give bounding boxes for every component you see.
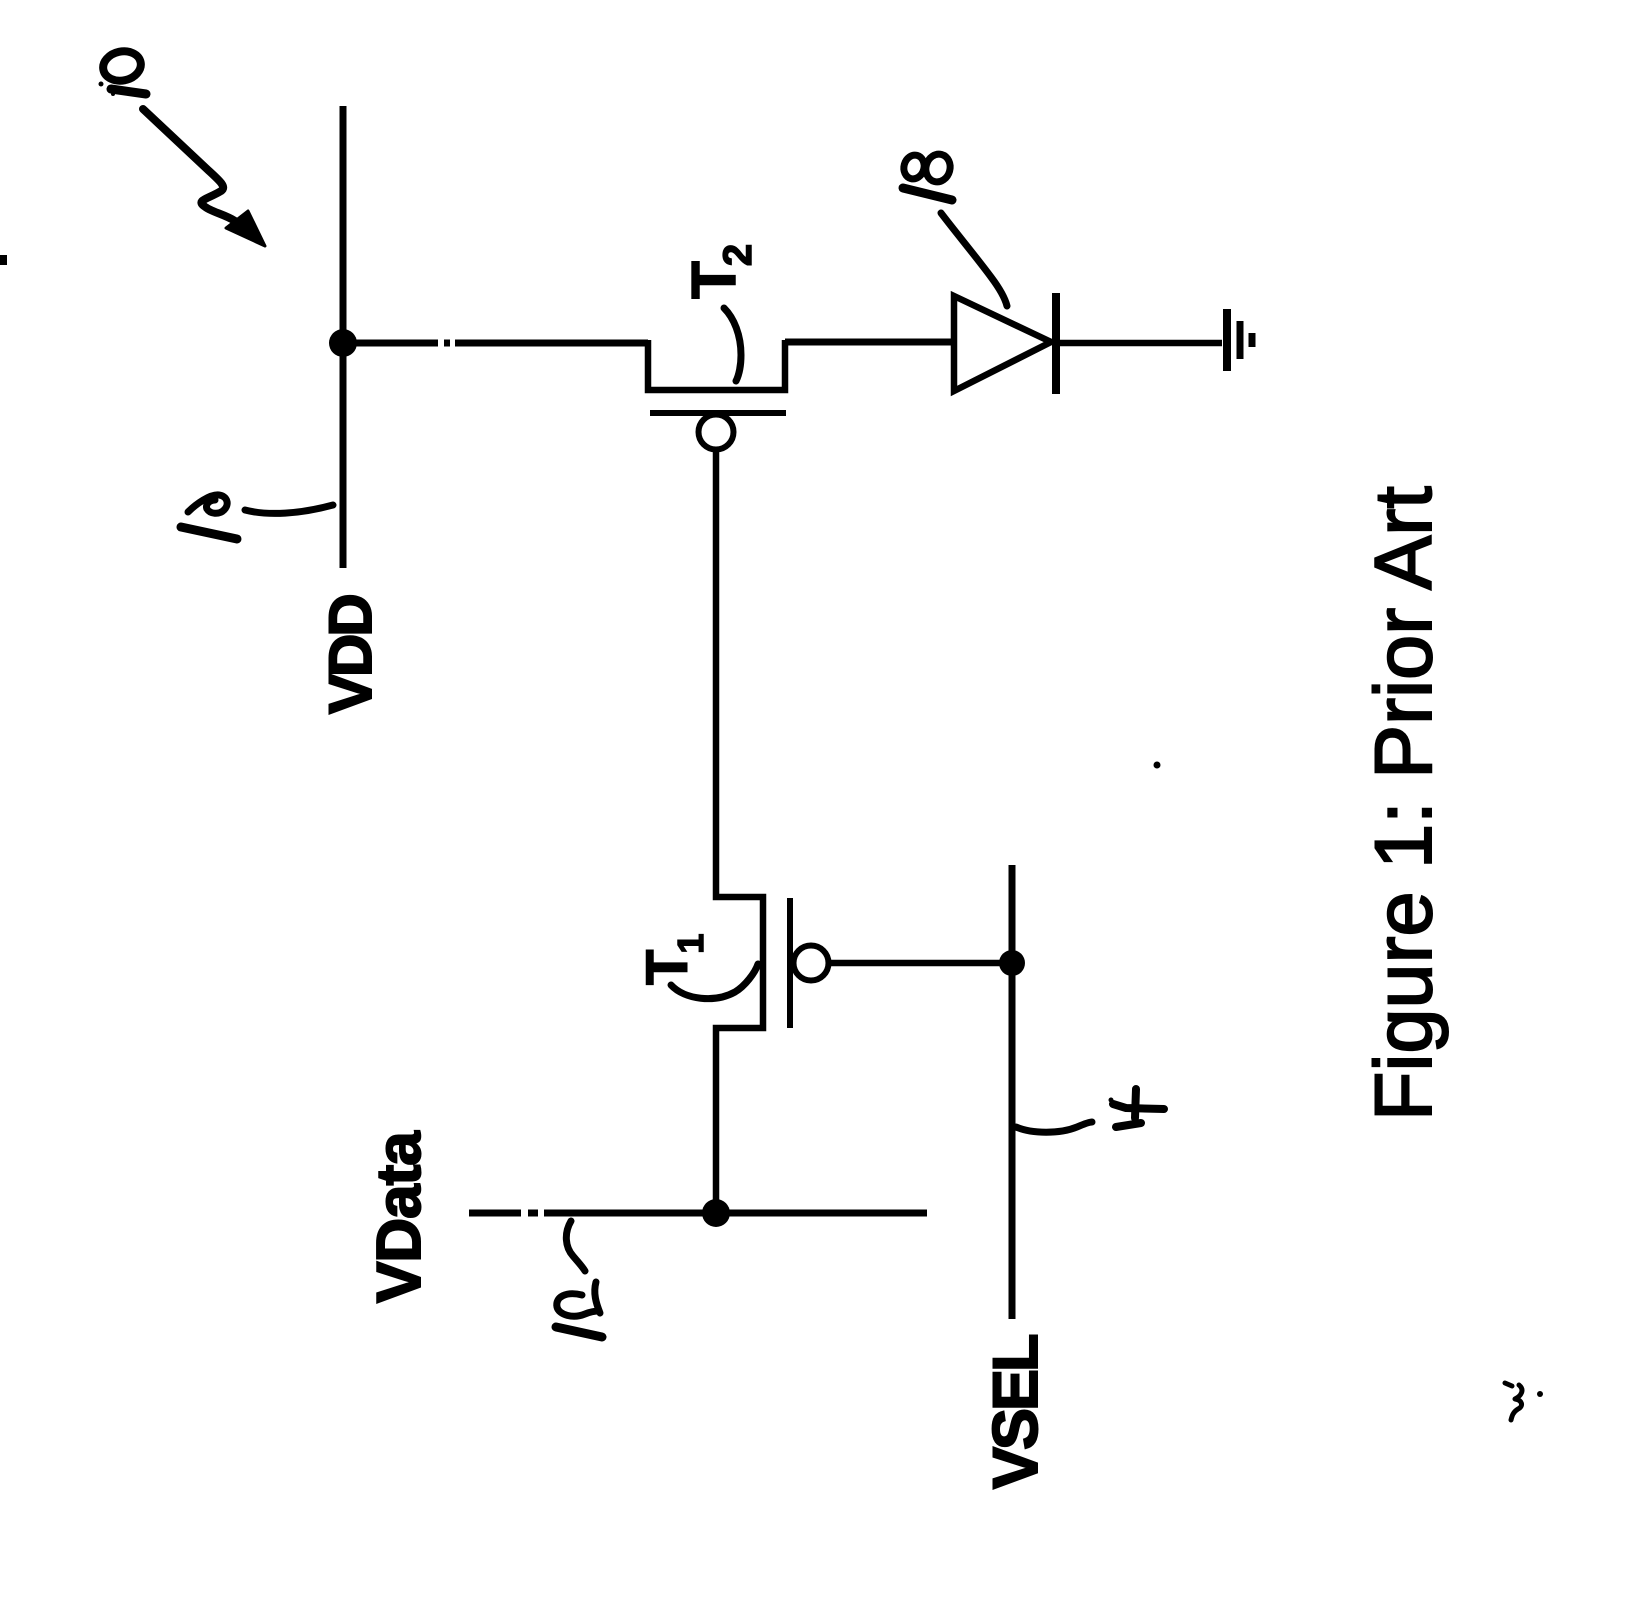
svg-text:VData: VData	[365, 1131, 434, 1303]
svg-text:T1: T1	[635, 934, 711, 985]
svg-text:T2: T2	[680, 244, 760, 299]
svg-text:VDD: VDD	[317, 596, 384, 714]
svg-text:Figure 1: Prior Art: Figure 1: Prior Art	[1359, 486, 1449, 1121]
svg-text:VSEL: VSEL	[981, 1335, 1051, 1489]
